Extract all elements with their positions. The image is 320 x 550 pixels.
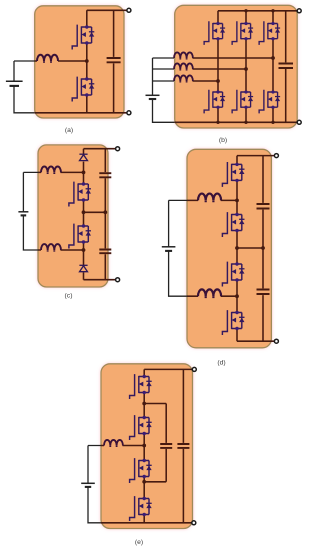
svg-text:(d): (d): [217, 360, 225, 367]
svg-text:(e): (e): [135, 539, 143, 546]
svg-text:(b): (b): [219, 137, 227, 144]
svg-text:(c): (c): [65, 293, 73, 300]
svg-text:(a): (a): [65, 127, 73, 134]
